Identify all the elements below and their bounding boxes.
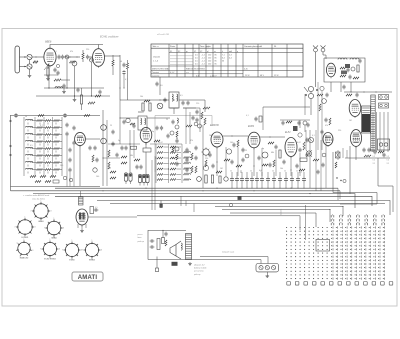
band row 2 resistor 2 xyxy=(45,127,51,129)
svg-text:5 2: 5 2 xyxy=(387,156,390,158)
mid vertical drops xyxy=(129,130,131,172)
svg-text:-1,2: -1,2 xyxy=(202,63,205,65)
wire bus down v2 xyxy=(119,55,121,100)
central component chain xyxy=(177,118,178,123)
svg-text:bobina mobile: bobina mobile xyxy=(194,268,207,270)
svg-text:50: 50 xyxy=(240,172,242,174)
svg-text:1M: 1M xyxy=(220,168,223,170)
switch wafer left xyxy=(203,149,209,155)
band row 5 resistor 1 xyxy=(37,148,43,150)
zig col x202 xyxy=(201,112,203,119)
det wires xyxy=(216,147,218,176)
coil bank frame xyxy=(23,117,25,176)
power wire L xyxy=(378,158,393,212)
svg-text:V2: V2 xyxy=(200,51,202,53)
table columns xyxy=(168,44,170,77)
resistor R11 xyxy=(95,95,101,97)
tone parts xyxy=(165,232,167,234)
V7 plate load xyxy=(143,148,151,152)
svg-text:220: 220 xyxy=(338,130,341,132)
tuner coil La xyxy=(338,58,347,60)
resistor R14 xyxy=(144,100,150,102)
svg-text:85: 85 xyxy=(215,58,217,60)
audio block wires xyxy=(148,259,200,261)
power caps bottom xyxy=(363,148,365,150)
svg-text:3 1: 3 1 xyxy=(387,163,390,165)
bus line 9 staircase c xyxy=(230,213,316,227)
tuner parts row2 xyxy=(340,75,346,77)
socket V3 base xyxy=(47,221,61,235)
small part near bus xyxy=(229,203,232,206)
mini circle component xyxy=(126,118,130,122)
speaker cone xyxy=(170,245,176,257)
wire V2 plate xyxy=(98,45,100,49)
table row line 3 xyxy=(151,65,303,67)
svg-text:52 W: 52 W xyxy=(274,75,279,77)
svg-text:1: 1 xyxy=(25,217,26,219)
central chain2 xyxy=(172,120,174,122)
phono jack caps xyxy=(150,240,152,242)
V6 right parts xyxy=(92,155,94,162)
det diode cluster xyxy=(154,140,160,142)
band row 3 resistor 3 xyxy=(54,134,60,136)
wire antenna feed upper xyxy=(20,56,27,58)
det parts 2 xyxy=(224,159,230,161)
band row 5 stubs xyxy=(27,151,29,153)
wire V1 top rail xyxy=(50,45,103,50)
magic eye tube V11 xyxy=(76,209,88,225)
mid extra squiggles xyxy=(121,156,127,158)
cap C10 xyxy=(99,90,101,92)
pilot lamp 3 xyxy=(272,266,276,270)
wire mesh top-left xyxy=(66,59,68,88)
cap C12 under table xyxy=(156,82,158,84)
svg-text:50: 50 xyxy=(230,171,232,173)
band row 8 resistor 1 xyxy=(37,169,43,171)
svg-text:0,02: 0,02 xyxy=(297,142,301,144)
resistor R1 xyxy=(33,61,38,63)
pilot lamp box xyxy=(256,264,279,272)
band row 8 resistor 3 xyxy=(54,169,60,171)
wafer2 xyxy=(203,165,208,170)
band row 4 resistor 1 xyxy=(37,141,43,143)
svg-text:EABC80: EABC80 xyxy=(210,124,220,127)
svg-text:Valv. n.: Valv. n. xyxy=(153,46,160,48)
mid coupling parts xyxy=(255,117,257,119)
ground x74 xyxy=(74,96,76,98)
small trimmers left xyxy=(63,176,67,180)
svg-text:7,1: 7,1 xyxy=(222,55,225,57)
svg-text:ECH81 oscillatore: ECH81 oscillatore xyxy=(100,36,119,39)
socket V6 base xyxy=(65,243,78,256)
svg-text:1M: 1M xyxy=(349,120,352,122)
svg-text:Tensioni: Tensioni xyxy=(152,72,160,74)
det vertical drops xyxy=(225,147,227,176)
keyboard left vertical line xyxy=(305,205,307,240)
band row 1 resistor 1 xyxy=(37,120,43,122)
capacitor C1 xyxy=(58,55,60,57)
svg-text:a 220 V: a 220 V xyxy=(210,76,217,78)
band row 3 coil xyxy=(26,133,33,134)
svg-text:4,5: 4,5 xyxy=(195,63,198,65)
aux circle xyxy=(308,137,313,142)
zigzag R10 xyxy=(88,102,95,104)
out parts 2 xyxy=(296,164,298,166)
resistor R15 boxes xyxy=(142,103,144,111)
svg-text:Valvole: Valvole xyxy=(153,57,161,59)
band row 3 resistor 2 xyxy=(45,134,51,136)
svg-text:10k: 10k xyxy=(140,96,143,98)
wire y75 segment xyxy=(44,74,58,76)
mid coupling parts2 xyxy=(282,121,284,123)
svg-text:pick-up: pick-up xyxy=(193,274,201,276)
svg-text:4,7: 4,7 xyxy=(125,79,128,81)
terminal a xyxy=(10,120,12,122)
small caps left of can xyxy=(182,101,184,103)
svg-text:68k: 68k xyxy=(130,155,133,157)
svg-text:s. cambio onde AM-FM mod.: s. cambio onde AM-FM mod. xyxy=(23,194,50,197)
capacitor C4 xyxy=(87,55,89,57)
junction dots front end xyxy=(66,87,67,88)
svg-text:1: 1 xyxy=(24,239,25,241)
svg-text:EM84: EM84 xyxy=(89,259,95,261)
svg-text:V1: V1 xyxy=(194,51,196,53)
svg-text:7: 7 xyxy=(40,249,41,251)
table row line 2 xyxy=(169,52,303,54)
svg-text:all'oscill. FM: all'oscill. FM xyxy=(157,34,169,36)
circle part x199 xyxy=(198,124,202,128)
keyboard matrix dots xyxy=(286,227,328,279)
tube V8 det xyxy=(211,132,223,147)
svg-text:1: 1 xyxy=(54,218,55,220)
svg-text:EABC80 EL84 EM84: EABC80 EL84 EM84 xyxy=(186,68,206,71)
AMATI logo box xyxy=(72,272,103,281)
lamp ground xyxy=(266,272,268,275)
electrolytic pair 2 xyxy=(138,174,141,182)
svg-text:-1,2: -1,2 xyxy=(202,61,205,63)
svg-text:3: 3 xyxy=(63,228,64,230)
FM tuner box outline xyxy=(324,58,365,82)
svg-text:Tens. griglia: Tens. griglia xyxy=(200,46,212,48)
table frame xyxy=(151,44,303,77)
ground audio xyxy=(189,262,191,263)
switch arrows right xyxy=(306,150,312,157)
svg-text:presa: presa xyxy=(137,234,144,236)
V6 wires xyxy=(79,146,81,186)
wire V7 down xyxy=(145,143,147,148)
svg-text:5 2: 5 2 xyxy=(373,156,376,158)
band row 1 coil xyxy=(26,119,33,120)
svg-text:3: 3 xyxy=(32,250,33,252)
svg-text:0,1: 0,1 xyxy=(246,115,249,117)
svg-text:tastiera: tastiera xyxy=(280,208,283,215)
svg-text:-1,2: -1,2 xyxy=(202,55,205,57)
out parts xyxy=(299,148,301,150)
eye tube ground xyxy=(81,229,83,230)
svg-text:50: 50 xyxy=(250,171,252,173)
socket V5 base xyxy=(43,242,56,255)
right side verticals x310-330 xyxy=(315,130,317,191)
band row 3 resistor 1 xyxy=(37,134,43,136)
band row 4 resistor 2 xyxy=(45,141,51,143)
band row 8 wire xyxy=(32,169,37,171)
svg-text:250: 250 xyxy=(208,58,211,60)
cap col2 xyxy=(73,126,75,128)
bus line 6 xyxy=(110,203,385,205)
svg-text:1: 1 xyxy=(72,240,73,242)
tuner drops xyxy=(330,82,332,92)
band row 4 stubs xyxy=(27,144,29,146)
third matrix column xyxy=(184,151,190,153)
svg-text:3: 3 xyxy=(35,227,36,229)
svg-text:c.a.: c.a. xyxy=(186,72,190,74)
bus line 2 xyxy=(11,190,341,192)
band row 7 resistor 2 xyxy=(45,162,51,164)
AVC resistor R8 xyxy=(54,79,61,81)
cap C7 xyxy=(123,70,125,72)
tuner cap Ca xyxy=(359,59,361,61)
band row 7 stubs xyxy=(27,165,29,167)
svg-text:25 W: 25 W xyxy=(245,75,250,77)
wire antenna feed lower xyxy=(20,66,27,68)
ground antenna xyxy=(29,69,31,74)
svg-text:5p: 5p xyxy=(262,148,264,150)
electrolytic pair 1 xyxy=(124,173,127,181)
socket V7 base xyxy=(85,243,98,256)
svg-text:Posiz.: Posiz. xyxy=(170,46,176,48)
mains plug block xyxy=(378,139,390,150)
volume pot xyxy=(157,103,163,109)
band row 4 coil xyxy=(26,140,33,141)
band row 8 resistor 2 xyxy=(45,169,51,171)
padder caps col xyxy=(66,123,68,125)
resistor R16 xyxy=(203,107,210,109)
drops from buses xyxy=(151,196,153,210)
svg-text:1: 1 xyxy=(50,239,51,241)
svg-text:lampade scala: lampade scala xyxy=(222,252,234,254)
box resistors in cap row xyxy=(205,175,207,183)
tube V1 converter xyxy=(44,48,56,66)
antenna dipole xyxy=(15,46,20,73)
power bottom wires xyxy=(345,157,390,159)
band row 3 stubs xyxy=(27,137,29,139)
svg-text:EZ80: EZ80 xyxy=(69,259,75,261)
af parts 2 xyxy=(258,156,260,158)
bus line 5 xyxy=(97,201,390,216)
FM dipole antenna 1 xyxy=(314,48,318,52)
svg-text:100: 100 xyxy=(230,142,233,144)
band row 6 resistor 3 xyxy=(54,155,60,157)
output transformer T3 xyxy=(186,234,192,260)
band row 7 coil xyxy=(26,161,33,162)
left input rail xyxy=(10,115,12,191)
svg-text:0,3: 0,3 xyxy=(196,76,199,78)
tube V2 IF amp xyxy=(93,49,105,67)
band row 2 stubs xyxy=(27,130,29,132)
left vertical wires mid xyxy=(102,110,104,186)
table leader lines xyxy=(170,55,193,57)
svg-text:0,4: 0,4 xyxy=(229,58,232,60)
band row 5 wire xyxy=(32,148,37,150)
band row 6 stubs xyxy=(27,158,29,160)
svg-text:50: 50 xyxy=(284,171,286,173)
long wire y215 xyxy=(137,216,300,230)
svg-text:6,3 V: 6,3 V xyxy=(170,72,175,74)
tuner parts row1 xyxy=(340,67,346,69)
svg-text:EM84: EM84 xyxy=(248,125,255,128)
power wires vertical xyxy=(372,112,374,152)
band row 2 resistor 1 xyxy=(37,127,43,129)
tube V6 AF xyxy=(75,132,86,145)
cap C8 xyxy=(63,84,65,86)
ratio det circle 2 xyxy=(308,93,313,98)
bank bottom cluster xyxy=(30,176,36,178)
cap C6 xyxy=(123,63,125,65)
svg-text:220: 220 xyxy=(196,103,199,105)
tone cap xyxy=(162,238,165,244)
band row 6 coil xyxy=(26,154,33,155)
svg-text:Corrente placca mA: Corrente placca mA xyxy=(244,45,262,48)
eye tube wire xyxy=(88,216,137,218)
band row 6 wire xyxy=(32,155,37,157)
svg-text:sc: sc xyxy=(214,51,216,53)
bus line 7 staircase a xyxy=(215,207,343,217)
ground V1 cathode xyxy=(47,77,49,78)
junction dots af xyxy=(217,162,218,163)
svg-text:25: 25 xyxy=(166,119,168,121)
svg-text:presa fono: presa fono xyxy=(193,271,204,273)
svg-text:0,02: 0,02 xyxy=(159,142,163,144)
svg-text:4,5: 4,5 xyxy=(195,55,198,57)
svg-text:220: 220 xyxy=(86,49,89,51)
svg-text:1M: 1M xyxy=(95,62,98,64)
audio block frame xyxy=(148,230,186,259)
mid coupling wire2 xyxy=(280,119,310,121)
svg-text:85: 85 xyxy=(215,61,217,63)
svg-text:100: 100 xyxy=(96,176,99,178)
svg-text:5 2: 5 2 xyxy=(387,160,390,162)
svg-text:5p: 5p xyxy=(118,140,120,142)
band row 8 stubs xyxy=(27,172,29,174)
pilot lamp 2 xyxy=(265,266,269,270)
caps row mid y147 xyxy=(121,146,123,148)
wire drop x127 xyxy=(127,76,129,100)
trimmer C3 xyxy=(65,55,69,59)
svg-text:10k: 10k xyxy=(280,168,283,170)
component value labels xyxy=(25,49,352,178)
svg-text:pick-up: pick-up xyxy=(137,241,145,243)
band row 5 coil xyxy=(26,147,33,148)
svg-text:50: 50 xyxy=(296,171,298,173)
top rail parts xyxy=(15,113,17,115)
oscillator coil L2 xyxy=(72,61,77,66)
svg-text:1: 1 xyxy=(92,240,93,242)
svg-text:0,1: 0,1 xyxy=(312,135,315,137)
table row line 5 xyxy=(151,73,243,75)
power small marks xyxy=(336,177,337,178)
cap C8b xyxy=(57,71,59,73)
keyboard top labels xyxy=(331,214,384,225)
tube V10 output xyxy=(285,138,297,157)
resistor R3 xyxy=(70,61,76,63)
arrow mark tuning xyxy=(44,64,49,70)
svg-text:g: g xyxy=(237,51,238,53)
keyboard position box xyxy=(316,240,330,252)
svg-text:0,5: 0,5 xyxy=(180,95,183,97)
svg-text:AMATI: AMATI xyxy=(78,275,98,281)
svg-text:n. 1-6: n. 1-6 xyxy=(153,61,159,63)
cathode resistor R2 xyxy=(47,66,49,68)
resistor col a xyxy=(108,150,110,157)
right side parts x310-330 xyxy=(313,159,319,161)
rectifier tube V4 xyxy=(349,100,361,117)
band row 8 coil xyxy=(26,168,33,169)
svg-text:0,5: 0,5 xyxy=(95,207,98,209)
svg-text:50: 50 xyxy=(25,116,27,118)
svg-text:-1,2: -1,2 xyxy=(202,58,205,60)
svg-text:3: 3 xyxy=(101,250,102,252)
svg-text:250: 250 xyxy=(208,61,211,63)
svg-text:0,1: 0,1 xyxy=(54,51,57,53)
fuse block 1 xyxy=(379,95,389,100)
fuse block 2 xyxy=(379,103,389,108)
svg-text:5p: 5p xyxy=(152,131,154,133)
band row 2 wire xyxy=(32,127,37,129)
svg-text:EL84 EM84: EL84 EM84 xyxy=(44,258,56,260)
lamp feed wires xyxy=(200,257,268,264)
svg-text:S1: S1 xyxy=(170,51,172,53)
svg-text:100: 100 xyxy=(60,165,63,167)
wire V2 out xyxy=(105,55,121,57)
resistor R6 xyxy=(127,60,129,63)
svg-text:4,7: 4,7 xyxy=(40,125,43,127)
svg-text:85: 85 xyxy=(215,63,217,65)
capacitor C2 xyxy=(62,55,64,57)
svg-text:7: 7 xyxy=(82,250,83,252)
decoupling wire xyxy=(48,65,50,88)
switch lever xyxy=(304,87,308,92)
bank bottom rail xyxy=(11,186,101,188)
junction t1 xyxy=(160,100,161,101)
svg-text:4,5: 4,5 xyxy=(195,58,198,60)
svg-text:5 2: 5 2 xyxy=(373,160,376,162)
eye tube top wire xyxy=(80,191,82,197)
svg-text:7: 7 xyxy=(31,211,32,213)
svg-text:2M: 2M xyxy=(45,155,48,157)
top mid parts xyxy=(123,120,125,122)
bus junction dots xyxy=(102,190,103,191)
junction dots mid xyxy=(120,118,121,119)
det parts 3 xyxy=(209,153,211,155)
svg-text:7: 7 xyxy=(17,243,18,245)
wire to V1 grid xyxy=(32,56,43,58)
terminal c xyxy=(10,154,12,156)
left row circles xyxy=(197,177,202,182)
tube V3 FM xyxy=(326,63,335,77)
right col caps2 xyxy=(195,146,197,148)
svg-text:1: 1 xyxy=(41,201,42,203)
band row 4 resistor 3 xyxy=(54,141,60,143)
resistor R4 vertical xyxy=(82,50,84,53)
FM box dark parts xyxy=(345,64,350,68)
svg-text:47k: 47k xyxy=(190,140,193,142)
terminal b xyxy=(10,145,12,147)
matrix verticals xyxy=(155,144,157,183)
right bus verticals xyxy=(337,188,339,200)
bus bar top right xyxy=(344,91,392,93)
band row 4 wire xyxy=(32,141,37,143)
band row 5 resistor 2 xyxy=(45,148,51,150)
